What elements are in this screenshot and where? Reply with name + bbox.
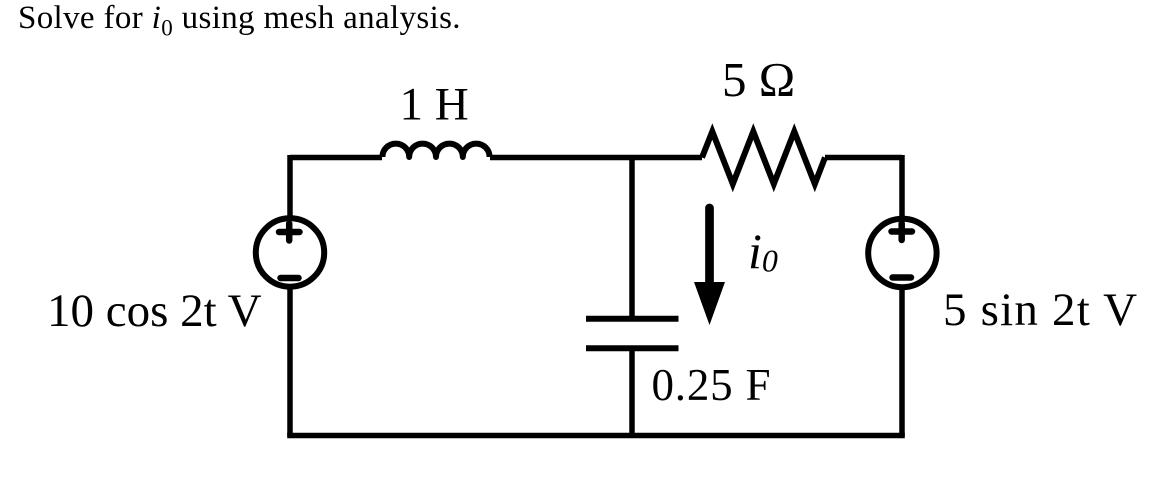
svg-text:10 cos 2t V: 10 cos 2t V (47, 285, 262, 337)
svg-text:1 H: 1 H (400, 79, 469, 131)
svg-text:i0: i0 (748, 223, 778, 279)
svg-text:5 Ω: 5 Ω (722, 52, 795, 107)
svg-text:0.25 F: 0.25 F (652, 360, 772, 410)
svg-text:Solve for i0 using mesh analys: Solve for i0 using mesh analysis. (18, 0, 461, 41)
svg-text:5 sin 2t V: 5 sin 2t V (943, 284, 1138, 336)
